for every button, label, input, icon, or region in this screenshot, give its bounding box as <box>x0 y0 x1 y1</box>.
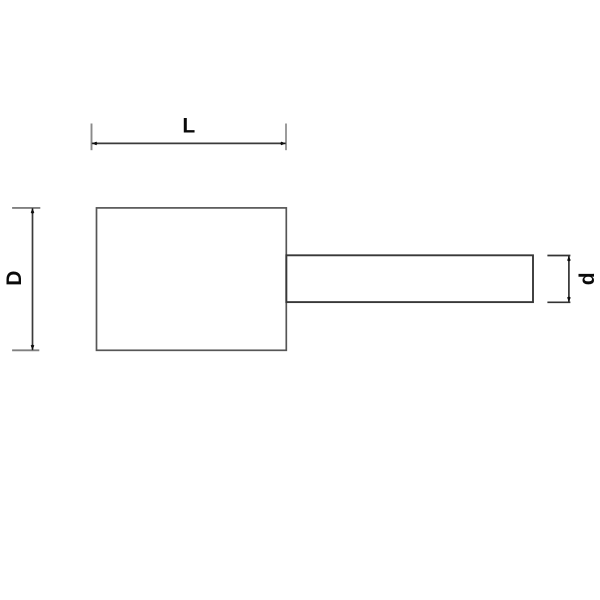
D dimension line <box>32 208 34 350</box>
shank outline <box>286 255 533 302</box>
d dimension extension line bottom <box>547 301 570 303</box>
L dimension extension line left <box>91 124 93 151</box>
wheel body outline <box>97 208 287 350</box>
d dimension arrow bottom <box>567 297 571 303</box>
d dimension extension line top <box>547 255 570 257</box>
D dimension arrow bottom <box>31 345 35 351</box>
svg-text:L: L <box>182 115 195 138</box>
L dimension arrow left <box>92 142 98 146</box>
D dimension arrow top <box>31 208 35 214</box>
svg-text:D: D <box>3 271 26 286</box>
d dimension line <box>568 256 570 302</box>
svg-text:d: d <box>576 272 599 285</box>
L dimension extension line right <box>285 124 287 151</box>
L dimension line <box>92 142 286 144</box>
D dimension extension line top <box>12 207 40 209</box>
D dimension extension line bottom <box>12 349 39 351</box>
L dimension arrow right <box>280 142 286 146</box>
d dimension arrow top <box>567 256 571 262</box>
